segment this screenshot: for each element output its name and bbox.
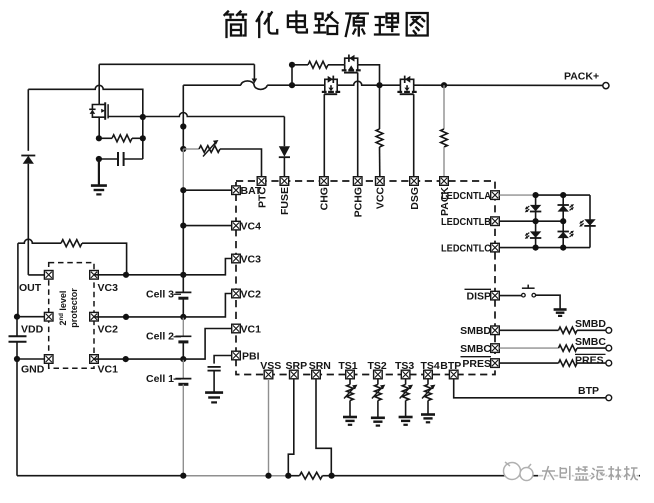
wire SRP (288, 379, 294, 476)
wire VC2 net (94, 294, 232, 317)
resistor R6 (499, 327, 606, 333)
label FUSE (279, 187, 291, 215)
svg-text:DISP: DISP (466, 290, 491, 302)
terminal PRES (575, 354, 612, 366)
LED D3 (525, 205, 542, 213)
svg-text:VC1: VC1 (241, 324, 262, 336)
ground (554, 310, 567, 316)
fuse-blow arrow (252, 79, 258, 84)
svg-text:VC4: VC4 (241, 221, 262, 233)
pin TS4 (424, 370, 433, 379)
label LEDCNTLC (441, 243, 491, 254)
node (180, 146, 186, 152)
wire (98, 64, 100, 104)
node (285, 473, 291, 479)
terminal SMBD (575, 318, 612, 333)
label TS1 (338, 360, 357, 372)
label VCC (375, 187, 387, 210)
pin PBI (232, 351, 241, 360)
node (96, 156, 102, 162)
diode D2 (279, 117, 290, 177)
label GND (21, 364, 45, 376)
node (533, 245, 539, 251)
node (376, 82, 382, 88)
svg-text:VDD: VDD (21, 324, 44, 336)
LED D5 (558, 204, 575, 212)
node (140, 114, 146, 120)
wire (183, 84, 241, 86)
svg-text:GND: GND (21, 364, 45, 376)
svg-text:BTP: BTP (440, 360, 461, 372)
wire VC3 net (94, 259, 232, 275)
label SRN (309, 360, 331, 372)
pin PCHG (353, 177, 362, 186)
pin SRN (312, 370, 321, 379)
svg-text:TS4: TS4 (420, 360, 439, 372)
label DSG (409, 187, 421, 210)
wire LEDCNTLA (499, 194, 590, 196)
label DISP (465, 289, 492, 302)
svg-text:FUSE: FUSE (279, 187, 291, 215)
resistor R1 (99, 135, 143, 142)
wire (182, 317, 184, 336)
svg-text:LEDCNTLA: LEDCNTLA (441, 191, 491, 202)
svg-text:SMBD: SMBD (460, 325, 491, 337)
wire PBI (214, 356, 232, 364)
terminal PACK+ (564, 71, 609, 89)
wire (182, 359, 184, 379)
svg-text:PTC: PTC (256, 187, 268, 208)
pin VC1 (232, 324, 241, 333)
node (14, 314, 20, 320)
svg-text:VC2: VC2 (98, 324, 119, 336)
svg-text:TS2: TS2 (367, 360, 386, 372)
pin BTP (449, 370, 458, 379)
wire (182, 149, 184, 190)
label 2nd level protector (58, 288, 79, 328)
node (180, 272, 186, 278)
pin VC3(U2) (90, 271, 99, 280)
LED D7 (579, 219, 596, 227)
svg-text:Cell 1: Cell 1 (146, 373, 174, 385)
wire (182, 190, 184, 292)
wire GND (17, 358, 44, 360)
node (289, 62, 295, 68)
node (289, 82, 295, 88)
node (265, 473, 271, 479)
thermistor RT1 (183, 140, 261, 177)
label OUT (19, 282, 42, 294)
transistor Q2 (CHG FET) (322, 76, 340, 177)
node (329, 473, 335, 479)
wire LEDCNTLB (499, 220, 563, 222)
pin SMBC (491, 344, 500, 353)
pin VC2(U2) (90, 312, 99, 321)
svg-text:PRES: PRES (462, 358, 491, 370)
wire (535, 195, 537, 248)
ground (205, 393, 223, 403)
node (180, 314, 186, 320)
node (180, 473, 186, 479)
wire VC4 (183, 225, 231, 227)
svg-text:PBI: PBI (242, 351, 260, 363)
pin VC3 (232, 254, 241, 263)
resistor R2 (292, 61, 345, 68)
pin TS3 (401, 370, 410, 379)
cell Cell3 (146, 289, 191, 317)
node (560, 245, 566, 251)
pin LEDCNTLC (491, 243, 500, 252)
wire (27, 89, 29, 151)
label TS4 (420, 360, 439, 372)
wire BAT (183, 189, 231, 191)
terminal SMBC (575, 336, 612, 351)
label PRES (461, 357, 492, 370)
wire BTP (454, 379, 606, 398)
svg-text:SRP: SRP (286, 360, 308, 372)
label PCHG (353, 187, 365, 217)
label LEDCNTLB (441, 217, 491, 228)
pin VC2 (232, 289, 241, 298)
wire (17, 243, 19, 317)
svg-text:TS3: TS3 (395, 360, 414, 372)
capacitor C1 (99, 152, 143, 166)
pin TS2 (374, 370, 383, 379)
svg-text:PACK+: PACK+ (564, 71, 599, 83)
pin BAT (232, 186, 241, 195)
resistor R9 (sense) (288, 472, 331, 479)
wire (562, 195, 564, 248)
wire (98, 159, 100, 185)
wire (589, 195, 591, 248)
svg-text:Cell 3: Cell 3 (146, 289, 174, 301)
wire VSS (268, 379, 270, 476)
wire (253, 64, 255, 79)
svg-text:OUT: OUT (19, 282, 42, 294)
LED D4 (525, 231, 542, 239)
node (180, 223, 186, 229)
svg-text:VC1: VC1 (98, 364, 119, 376)
capacitor C2 (9, 317, 27, 359)
label VC2(U2) (98, 324, 119, 336)
svg-text:VC3: VC3 (241, 254, 262, 266)
pin DSG (410, 177, 419, 186)
node (96, 135, 102, 141)
wire (182, 384, 184, 475)
pin VC4 (232, 221, 241, 230)
IC U1 (236, 181, 495, 375)
pin PRES (491, 359, 500, 368)
wire (28, 274, 44, 276)
pin TS1 (346, 370, 355, 379)
label SRP (286, 360, 308, 372)
node (180, 123, 186, 129)
wire VC1 net (94, 329, 232, 360)
label BAT (241, 185, 262, 197)
label PTC (256, 187, 268, 208)
label VC1 (241, 324, 262, 336)
pin CHG (320, 177, 329, 186)
node (533, 192, 539, 198)
wire (267, 84, 325, 86)
node (441, 82, 447, 88)
wire SRN (316, 379, 331, 476)
svg-text:Cell 2: Cell 2 (146, 331, 174, 343)
node (123, 356, 129, 362)
pin LEDCNTLA (491, 191, 500, 200)
label PACK (439, 187, 451, 216)
pin OUT (44, 271, 53, 280)
node (533, 218, 539, 224)
svg-text:BTP: BTP (578, 385, 599, 397)
wire (143, 113, 285, 117)
node (180, 187, 186, 193)
wire (414, 84, 603, 86)
label PBI (242, 351, 260, 363)
wire (291, 65, 293, 85)
label VC2 (241, 289, 262, 301)
cell Cell2 (146, 331, 191, 360)
wire VDD (17, 316, 44, 318)
wire (499, 295, 521, 297)
svg-text:CHG: CHG (319, 187, 331, 210)
svg-text:SMBC: SMBC (575, 336, 606, 348)
label BTP (440, 360, 461, 372)
label VSS (260, 360, 281, 372)
terminal BTP (578, 385, 612, 401)
wire (337, 81, 400, 85)
svg-text:SRN: SRN (309, 360, 331, 372)
label TS2 (367, 360, 386, 372)
transistor Q3 (PCHG FET) (342, 55, 361, 73)
resistor R5 (441, 85, 448, 176)
pin DISP (491, 291, 500, 300)
label VC3 (241, 254, 262, 266)
node (180, 356, 186, 362)
svg-text:LEDCNTLC: LEDCNTLC (441, 243, 491, 254)
pin SRP (290, 370, 299, 379)
capacitor C3 (208, 367, 221, 392)
watermark logo 大印蓝海科技 (504, 462, 640, 484)
2nd level protector U2 (49, 263, 94, 369)
node (14, 356, 20, 362)
pin VDD(U2) (44, 312, 53, 321)
pin PTC (257, 177, 266, 186)
wire (358, 65, 380, 85)
pin LEDCNTLB (491, 217, 500, 226)
bottom rail (17, 475, 640, 477)
wire (357, 73, 359, 177)
wire (99, 63, 254, 65)
resistor R3 (18, 239, 127, 275)
label CHG (319, 187, 331, 210)
switch SW1 (522, 285, 536, 297)
svg-text:VC2: VC2 (241, 289, 262, 301)
thermistor RT2 (343, 379, 357, 425)
pin VSS (264, 370, 273, 379)
svg-text:PCHG: PCHG (353, 187, 365, 217)
title text 简化电路原理图 (225, 12, 428, 38)
wire LEDCNTLC (499, 247, 590, 249)
LED D6 (558, 231, 575, 239)
node (560, 192, 566, 198)
svg-text:protector: protector (69, 288, 79, 328)
pin FUSE (280, 177, 289, 186)
ground (91, 186, 107, 195)
resistor R8 (499, 360, 606, 366)
pin VC1(U2) (90, 355, 99, 364)
svg-text:DSG: DSG (409, 187, 421, 210)
wire (16, 359, 18, 476)
label LEDCNTLA (441, 191, 491, 202)
node (140, 135, 146, 141)
svg-text:SMBC: SMBC (460, 343, 491, 355)
pin PACK (440, 177, 449, 186)
wire (536, 295, 560, 309)
label VC4 (241, 221, 262, 233)
wire (142, 117, 144, 159)
cell Cell1 (146, 373, 191, 385)
svg-text:VC3: VC3 (98, 282, 119, 294)
svg-text:VSS: VSS (260, 360, 281, 372)
label VC3(U2) (98, 282, 119, 294)
svg-text:TS1: TS1 (338, 360, 357, 372)
diode D1 (21, 156, 35, 275)
thermistor RT3 (371, 379, 385, 426)
node (123, 314, 129, 320)
svg-text:VCC: VCC (375, 187, 387, 210)
thermistor RT4 (399, 379, 413, 425)
thermistor RT5 (421, 379, 435, 423)
pin VCC (376, 177, 385, 186)
node (560, 218, 566, 224)
label VDD (21, 324, 44, 336)
label TS3 (395, 360, 414, 372)
node (123, 272, 129, 278)
svg-text:SMBD: SMBD (575, 318, 606, 330)
transistor Q4 (DSG FET) (397, 76, 416, 177)
wire (182, 85, 184, 149)
pin GND(U2) (44, 355, 53, 364)
svg-text:LEDCNTLB: LEDCNTLB (441, 217, 491, 228)
wire (28, 85, 143, 117)
pin SMBD (491, 326, 500, 335)
fuse F1 (241, 81, 267, 90)
label SMBC (460, 343, 491, 355)
resistor R7 (499, 345, 606, 351)
transistor Q1 (89, 102, 143, 138)
svg-text:PRES: PRES (575, 355, 604, 367)
label VC1(U2) (98, 364, 119, 376)
resistor R4 (376, 85, 383, 176)
label SMBD (460, 325, 491, 337)
